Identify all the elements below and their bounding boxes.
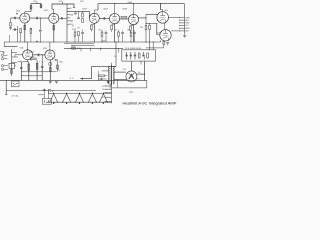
capacitor C3 [60, 17, 63, 20]
resistor R31 on bus B [72, 48, 76, 50]
wire bus B stub right [118, 48, 120, 52]
wire mid bus A [4, 41, 161, 43]
wire screen link [163, 23, 165, 30]
wire input stub [10, 18, 12, 23]
resistor R12 series [120, 16, 127, 19]
rectifier V7 5Y3 [126, 71, 137, 82]
label ac volts [12, 95, 20, 98]
tube V4 6SN7 [128, 14, 138, 24]
svg-text:5V: 5V [102, 89, 104, 91]
capacitor C1 input [14, 17, 17, 20]
resistor R11 cathode [111, 25, 115, 32]
svg-text:+210: +210 [58, 1, 62, 3]
svg-text:B+: B+ [138, 72, 140, 74]
svg-text:6SC7: 6SC7 [83, 9, 88, 11]
wire V3 plate drop [114, 4, 116, 14]
jack J3 [1, 65, 8, 67]
resistor R29 in box [138, 53, 140, 58]
svg-text:V1B: V1B [44, 10, 48, 12]
wire tone vertical 2 [28, 62, 30, 81]
tube V1B 12AX7 [49, 13, 59, 23]
tube heater filament 2 [62, 92, 71, 104]
resistor R23 [127, 29, 131, 42]
resistor R22 [115, 29, 120, 42]
svg-text:50K: 50K [127, 29, 130, 31]
capacitor C21 marks [78, 48, 80, 50]
wire control tap 3 [12, 62, 18, 64]
label selector taps [70, 8, 74, 26]
wire ac bus [0, 79, 147, 81]
label 5V [114, 56, 116, 58]
wire to V2 grid [88, 11, 90, 18]
jack J2 [1, 58, 7, 60]
wire stub b- [129, 91, 133, 93]
junction dots bus B [71, 48, 117, 49]
svg-text:BRN: BRN [185, 28, 190, 30]
ground ac [55, 82, 58, 84]
svg-text:V1A: V1A [16, 10, 20, 13]
wire tone h1 [18, 61, 29, 63]
svg-text:T: T [39, 62, 40, 64]
label 12AU7 row2 [29, 50, 34, 53]
wire R1 down [10, 26, 12, 28]
svg-text:5Y3: 5Y3 [123, 69, 126, 71]
junction splitter [145, 17, 157, 24]
label V9 [157, 33, 160, 35]
label hum pot [59, 61, 62, 63]
junction dots tone [28, 71, 42, 76]
wire sec to rect plate 1 [114, 71, 126, 73]
label R34 [140, 27, 144, 29]
wire short bus [4, 46, 17, 48]
wire ac leg [5, 80, 7, 94]
svg-text:117 V.A.C.: 117 V.A.C. [12, 95, 20, 98]
svg-text:10K: 10K [98, 29, 101, 31]
svg-text:BLK: BLK [185, 31, 189, 33]
resistor R24 tone [36, 63, 38, 69]
wire strip right [112, 81, 147, 88]
label bus B [71, 46, 76, 48]
jack J5 pc out [49, 62, 52, 65]
wire to upper grid [146, 13, 157, 15]
wire tone vertical 1 [20, 62, 22, 81]
junction rect b+ [144, 74, 145, 75]
wire lower bus B [64, 47, 123, 49]
wire V4 plate drop [133, 4, 135, 15]
wire coupling V5-V6 [33, 54, 45, 56]
svg-text:CT: CT [102, 97, 104, 99]
svg-text:BLU: BLU [185, 20, 189, 22]
resistor R13 cathode [130, 26, 134, 34]
wire control bus [11, 49, 13, 76]
jack J4 [1, 68, 8, 70]
wire heater feed line [92, 65, 116, 67]
wire ps left entry [102, 70, 109, 72]
resistor R27 [49, 67, 51, 71]
wire V4 cathode [133, 25, 135, 42]
filter box [122, 50, 156, 61]
node plus mark input [16, 13, 18, 15]
wire choke in 3 [153, 42, 154, 51]
transformer T1 secondary [110, 66, 114, 88]
ground input [9, 28, 12, 30]
label B+ node [138, 72, 140, 74]
label filter [125, 48, 141, 50]
svg-text:TUN: TUN [70, 24, 73, 26]
tube heater filament 3 [75, 92, 84, 104]
wire box bottom out [141, 61, 145, 80]
wire cluster vertical [17, 26, 19, 42]
wire pc vertical [91, 66, 93, 78]
svg-text:6.3 V: 6.3 V [136, 79, 140, 81]
svg-text:+225V: +225V [101, 40, 107, 42]
potentiometer volume box [9, 63, 16, 68]
wire input grid V1A [11, 17, 20, 19]
resistor R34 plate load [145, 26, 147, 30]
svg-text:500K: 500K [59, 61, 62, 63]
capacitor C13 [20, 66, 23, 69]
wire control tap 1 [12, 52, 18, 54]
resistor R3 box [20, 29, 22, 43]
wire V8 plate stub [157, 14, 180, 21]
wire grid leak drop [39, 18, 41, 29]
svg-text:.05: .05 [72, 26, 74, 28]
svg-text:22K: 22K [140, 27, 144, 29]
wire B+ bracket stage 2 [52, 4, 75, 9]
wire ps left joins [99, 71, 108, 80]
resistor R7 [82, 13, 84, 17]
component across strip [107, 80, 109, 83]
wire R33 down [163, 45, 165, 48]
ground terminal [183, 35, 186, 37]
wire V1B cathode [53, 23, 55, 42]
resistor R6 cathode [53, 26, 55, 30]
svg-text:V2B: V2B [43, 48, 47, 50]
wire fuse taps [38, 89, 48, 99]
wire bus left corner [3, 42, 5, 47]
capacitor C6 [103, 17, 106, 20]
wire coupling V2-V3 [99, 17, 109, 19]
switch S2 ac [12, 81, 20, 87]
transformer T1 core [110, 65, 113, 85]
resistor R30 in box [147, 53, 149, 58]
capacitor C10 [121, 31, 124, 43]
resistor R5 plate load [30, 6, 32, 9]
wire cluster top [67, 11, 89, 17]
tube V1A 12AX7 [20, 13, 30, 23]
tube heater filament 5 [99, 92, 108, 104]
wire hum branch [55, 59, 58, 71]
wire choke in 2 [149, 42, 151, 50]
wire V1A plate [25, 12, 31, 13]
label V3 [104, 9, 109, 11]
wire hv feed vertical [116, 42, 117, 67]
svg-text:6SC7: 6SC7 [80, 1, 84, 3]
wire heater hook [49, 89, 52, 93]
wire V9 plate stub [160, 31, 180, 39]
capacitor C9 [105, 31, 108, 43]
wire coupling V3-V4 [120, 18, 129, 20]
wire pc arrow [81, 78, 92, 80]
component cluster row2 [31, 57, 37, 60]
capacitor C22 to bus [39, 30, 42, 42]
svg-text:6SN7: 6SN7 [123, 9, 128, 11]
resistor R36 control [11, 70, 13, 74]
wire V5 plate to bus [27, 42, 29, 50]
junction dots top bus [114, 3, 161, 4]
label V7 [123, 69, 126, 71]
junction selector bus [67, 42, 68, 43]
capacitor C2 coupling [36, 17, 39, 20]
capacitor C4 [74, 12, 77, 15]
svg-text:20: 20 [72, 29, 74, 31]
wire sec to rect plate 2 [114, 79, 126, 81]
tube V9 6L6 lower [160, 30, 171, 41]
terminal rows power [102, 86, 112, 102]
svg-text:MAG: MAG [70, 20, 73, 23]
resistor R26 [28, 64, 30, 70]
junction grid leak [40, 18, 41, 19]
wire choke in 1 [145, 42, 147, 50]
wire V1A cathode [24, 23, 26, 42]
wire tone h3 [21, 71, 56, 73]
wire V2 cathode [93, 23, 95, 42]
tube V5 12AU7 [23, 50, 33, 60]
node bracket2 top stub [58, 1, 62, 4]
resistor R28 line [99, 75, 105, 77]
label V6 [43, 48, 47, 50]
wire V3 cathode [114, 24, 116, 42]
wire partial line 2 [71, 45, 94, 47]
resistor R19 [74, 28, 76, 42]
wire tone h4 [21, 75, 42, 77]
wire partial line 1 [64, 42, 94, 44]
wire rect top [130, 62, 132, 71]
wire V1B out [59, 17, 67, 19]
wire lower branch [146, 22, 157, 24]
resistor R33 cathode [163, 41, 165, 44]
ground V6 [49, 82, 52, 84]
wire V1B plate [52, 9, 54, 13]
label 225V [101, 40, 107, 42]
node bracket1 top stub [33, 1, 37, 4]
capacitor C5 [77, 17, 80, 20]
capacitor C11 [133, 31, 136, 43]
wire V2 screen feed [94, 10, 98, 13]
node plus mark bus [36, 40, 38, 42]
capacitor C12 [37, 54, 40, 57]
wire grid V5 [15, 55, 23, 57]
capacitor C19 can [142, 52, 144, 60]
wire tone vertical 4 [41, 60, 43, 80]
svg-text:+255: +255 [33, 1, 37, 3]
wire rect output [137, 73, 145, 75]
wire ac lower [6, 90, 96, 92]
wire heater bus top [49, 93, 112, 95]
svg-text:B: B [31, 60, 33, 62]
tube V6 12AU7 [45, 50, 55, 60]
capacitor C14 [41, 65, 44, 68]
capacitor C8 [81, 30, 84, 43]
wire coupling 1 [30, 17, 49, 19]
svg-text:Heathkit A-9C Integrated AMP: Heathkit A-9C Integrated AMP [123, 101, 177, 106]
resistor R21 [98, 29, 103, 42]
transformer T1 primary [109, 66, 110, 84]
resistor R4 hang [30, 28, 32, 42]
svg-text:TV: TV [70, 8, 72, 10]
svg-text:+360V: +360V [127, 2, 133, 4]
resistor R10 cathode [90, 25, 94, 32]
fuse box [42, 99, 51, 105]
wire V5 cathode [27, 60, 29, 62]
potentiometer hum [57, 65, 60, 71]
node plus input row2 [3, 52, 5, 54]
label heater bus [50, 91, 53, 93]
junction grid V6 [42, 54, 43, 55]
junction dots ac bus [21, 80, 145, 81]
label cluster a [72, 26, 74, 28]
wire control tap 2 [12, 56, 19, 58]
terminal strip power [111, 80, 113, 103]
tube heater filament 4 [88, 92, 97, 104]
wire tone h2 [18, 67, 22, 69]
caption title [123, 101, 177, 106]
wire R35 to bus [149, 23, 151, 42]
label PC [70, 78, 74, 80]
svg-text:R-Y: R-Y [185, 25, 189, 27]
wire plate feed vertical [145, 14, 147, 25]
wire output cathode line [146, 47, 164, 49]
svg-text:5V: 5V [114, 56, 116, 58]
resistor R9 plate load [40, 5, 42, 8]
wire V9 cathode [163, 40, 165, 43]
resistor R35 plate load [149, 25, 151, 29]
svg-text:1 M: 1 M [77, 28, 80, 30]
svg-text:20 20 40 MFD CHOKE: 20 20 40 MFD CHOKE [125, 48, 141, 50]
svg-text:XTAL: XTAL [70, 13, 74, 16]
label heater volts [136, 79, 140, 81]
svg-text:P C: P C [70, 78, 74, 80]
wire xfmr top link [111, 63, 116, 67]
capacitor C2a bypass [13, 28, 18, 31]
capacitor C18 can [134, 52, 136, 60]
terminal strip output transformer [179, 4, 190, 35]
capacitor C15 line [99, 78, 107, 80]
svg-text:6L6: 6L6 [165, 10, 168, 12]
wire heater bus bottom [46, 101, 112, 103]
svg-text:V2A: V2A [20, 47, 24, 50]
wire strip corner [146, 80, 148, 88]
wire grid drop V6 [41, 55, 43, 60]
svg-text:6SC7: 6SC7 [104, 9, 109, 11]
label V2 [83, 9, 88, 11]
label V8 [165, 10, 168, 12]
label V5 [20, 47, 24, 50]
wire tone vertical 3 [36, 60, 38, 80]
wire V8 top feed [161, 4, 163, 12]
wire R34 to bus [145, 30, 147, 42]
resistor R1 grid [10, 23, 12, 26]
svg-text:6.3: 6.3 [102, 86, 104, 88]
wire left stub r1 [8, 35, 10, 42]
wire bus B stubs [81, 48, 100, 51]
label top left smudge [80, 1, 84, 3]
label cluster b [77, 28, 80, 30]
wire B+ bracket stage 1 [31, 4, 41, 12]
wire B+ main bus [98, 4, 185, 10]
resistor R20 [78, 32, 80, 43]
label cluster c [72, 29, 74, 31]
label V4 [123, 9, 128, 11]
wire left stub row2 [0, 51, 4, 53]
wire bus to splitter corner [160, 40, 162, 42]
tube V3 6SC7 [110, 14, 120, 24]
switch S1 selector [67, 4, 70, 42]
tube V2 6SC7 [89, 13, 99, 23]
label tone [31, 60, 40, 64]
capacitor C17 can [130, 52, 132, 60]
wire V6 cathode chain [49, 60, 51, 80]
wire splitter out [138, 17, 146, 19]
tube V8 6L6 upper [157, 12, 169, 24]
wire V6 plate to bus [49, 42, 51, 50]
junction dots bus A [24, 42, 150, 43]
ground output [166, 43, 169, 45]
capacitor C16 can [125, 52, 127, 60]
svg-text:1K: 1K [115, 29, 117, 31]
resistor R8 [82, 19, 84, 23]
jack J1 [1, 54, 7, 56]
wire output plate drop [160, 4, 162, 10]
tube heater filament 1 [49, 92, 58, 104]
resistor R2 cathode [24, 25, 26, 29]
svg-text:6L6: 6L6 [157, 33, 160, 35]
wire to lower grid [157, 23, 160, 34]
label bus voltage [127, 2, 133, 4]
label V1B [44, 10, 48, 12]
svg-text:6.3V: 6.3V [50, 91, 53, 93]
label V1A [16, 10, 20, 13]
